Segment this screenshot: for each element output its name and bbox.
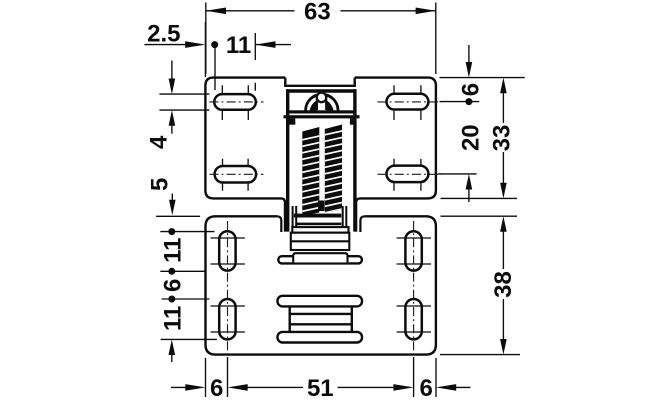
bottom plate outline [206, 216, 436, 354]
dot right 6 [465, 98, 472, 105]
dim 5 line [156, 215, 200, 217]
right col 6 arrow shaft [468, 45, 470, 64]
slot hole tick marks lower-left slot [223, 159, 249, 191]
dim 11 top arrow tail [255, 44, 291, 46]
svg-text:6: 6 [458, 83, 485, 96]
dim 11 top: slot-left drop line [214, 48, 216, 90]
bottom ext slot center right [413, 357, 415, 397]
anchor band 1 [288, 110, 356, 113]
arrow right 20 up [466, 174, 473, 190]
top plate outline left ear [205, 78, 354, 232]
left chain bottom arrow shaft [171, 353, 173, 362]
dim 63 extension line right [435, 3, 437, 75]
dim 2.5 line [144, 44, 186, 46]
anchor band 2 (axle) [284, 115, 360, 118]
clamp side rails right [343, 206, 347, 232]
arrow bottom outer left [185, 384, 205, 391]
clamp flange C [292, 227, 348, 233]
centerline upper slot row left [209, 101, 263, 103]
dim 4 line B [159, 109, 209, 111]
arrow chain bottom up [169, 339, 176, 355]
bottom plate slot lower-right [405, 299, 421, 339]
dot chain 2 [168, 268, 175, 275]
right col 20 arrow shaft [468, 187, 470, 202]
bottom ext slot center left [227, 357, 229, 397]
bottom plate center spool bottom bar [278, 332, 363, 343]
mechanism cage top band [286, 89, 357, 92]
hanger block left [289, 118, 295, 124]
top plate slot upper-left [214, 94, 256, 110]
right L4 plate bottom extension [441, 197, 518, 199]
svg-text:51: 51 [307, 375, 334, 400]
svg-text:38: 38 [490, 271, 517, 298]
centerline lower slot row right [378, 173, 442, 175]
dim 5 arrow shaft [171, 194, 173, 203]
pin collar [317, 100, 326, 111]
dim 4 lower arrow shaft [171, 124, 173, 134]
dim 63 line [206, 10, 436, 12]
svg-text:11: 11 [159, 238, 186, 263]
svg-text:4: 4 [145, 135, 172, 149]
bottom plate center spool top bar [278, 296, 363, 307]
left chain line 3 [162, 298, 210, 300]
arrow 38 down [500, 339, 507, 355]
slot hole tick marks lower-right slot [394, 159, 421, 191]
clamp box D inner line [291, 240, 350, 242]
top plate outline right ear [355, 78, 436, 232]
pin circle [317, 93, 327, 103]
arrow 5 down [169, 200, 176, 216]
arrow 51 right [393, 384, 413, 391]
dome base wedge right [326, 100, 334, 111]
shoulder fillet left [277, 216, 281, 232]
arrow 11 top [255, 41, 275, 48]
arrow 38 up [500, 216, 507, 232]
right L3 slot center extension [438, 173, 477, 175]
mechanism cage right wall [353, 89, 356, 231]
dome base wedge left [309, 100, 317, 111]
svg-text:63: 63 [304, 0, 331, 26]
arrow right 6 down [466, 62, 473, 78]
clamp bar A [294, 214, 342, 218]
hanger block right [350, 118, 356, 124]
vertical centerline bottom-left slot column [227, 221, 229, 351]
arrow 33 up [500, 78, 507, 94]
bottom ext plate left edge [205, 358, 207, 397]
dim 4 line A [159, 93, 209, 95]
svg-text:6: 6 [420, 375, 433, 400]
arrow 63 left [206, 8, 226, 15]
hole ticks bottom-left slots [211, 238, 245, 332]
clamp box D [291, 233, 350, 250]
bottom plate center spool waist [290, 306, 352, 332]
dim 11 top right extension [254, 33, 256, 91]
bottom ext plate right edge [435, 358, 437, 397]
spring bottom connector [318, 201, 325, 212]
vertical centerline bottom-right slot column [413, 221, 415, 351]
bottom plate slot upper-left [219, 231, 235, 270]
centerline lower slot row left [209, 173, 263, 175]
dim 63 extension line left [205, 3, 207, 75]
arrow 51 left [228, 384, 248, 391]
dim 4 upper arrow shaft [171, 61, 173, 81]
svg-text:33: 33 [489, 125, 516, 152]
dim 33 shaft [502, 91, 504, 185]
top plate slot lower-left [215, 166, 257, 183]
dot chain 1 [168, 228, 175, 235]
arrow 4 down [169, 79, 176, 95]
spring dome arc [306, 94, 338, 110]
svg-text:20: 20 [458, 124, 485, 151]
dim 38 shaft [502, 230, 504, 341]
arrow 4 up [169, 110, 176, 126]
bottom dim right outer tail [450, 386, 471, 388]
dot chain 3 [168, 296, 175, 303]
top plate slot upper-right [387, 94, 429, 110]
arrow 2.5 [185, 41, 205, 48]
mechanism cage left wall [286, 89, 289, 231]
right L5 bottom plate top extension [441, 215, 518, 217]
dot 11 top left ref [211, 41, 218, 48]
svg-text:11: 11 [226, 32, 251, 59]
hole ticks bottom-right slots [397, 238, 431, 332]
left chain line 2 [160, 270, 206, 272]
clamp side rails left [293, 206, 297, 232]
slot hole tick marks upper-right slot [394, 85, 421, 120]
bottom plate slot lower-left [219, 299, 235, 339]
svg-text:11: 11 [159, 306, 186, 331]
right L2 slot center extension [440, 101, 480, 103]
shoulder fillet right [360, 216, 364, 232]
foot center block E [293, 253, 347, 262]
arrow bottom outer right [436, 384, 456, 391]
centerline upper slot row right [378, 101, 442, 103]
left chain line 1 [160, 231, 214, 233]
bottom plate slot upper-right [405, 231, 421, 270]
foot bar F [278, 256, 362, 263]
arrow 33 down [500, 183, 507, 199]
coil springs (hatched black) [299, 120, 345, 220]
svg-text:2.5: 2.5 [147, 20, 180, 47]
slot hole tick marks upper-left slot [222, 85, 248, 120]
bottom dim 51 line [243, 386, 398, 388]
clamp bar B [297, 223, 342, 226]
svg-text:6: 6 [210, 375, 223, 400]
dim 2.5 extension (plate edge up) [204, 22, 206, 77]
svg-text:5: 5 [147, 178, 174, 191]
svg-text:6: 6 [159, 279, 186, 292]
arrow 63 right [416, 8, 436, 15]
left chain line 4 [161, 338, 217, 340]
right L1 top edge extension [440, 77, 525, 79]
top plate slot lower-right [387, 166, 429, 183]
bottom dim line left outer tail [171, 386, 191, 388]
right L6 bottom plate bottom extension [440, 354, 520, 356]
